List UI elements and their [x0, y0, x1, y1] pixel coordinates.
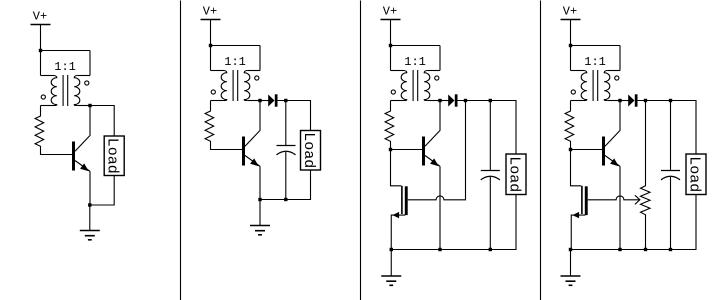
svg-text:V+: V+	[563, 5, 577, 19]
svg-text:1:1: 1:1	[54, 60, 76, 74]
svg-text:1:1: 1:1	[224, 55, 246, 69]
svg-text:1:1: 1:1	[584, 55, 606, 69]
svg-text:V+: V+	[203, 5, 217, 19]
svg-text:Load: Load	[506, 156, 523, 192]
svg-text:Load: Load	[104, 138, 121, 174]
svg-text:Load: Load	[300, 132, 317, 168]
svg-text:V+: V+	[383, 5, 397, 19]
svg-text:1:1: 1:1	[404, 55, 426, 69]
svg-text:Load: Load	[686, 156, 703, 192]
svg-text:V+: V+	[33, 10, 47, 24]
